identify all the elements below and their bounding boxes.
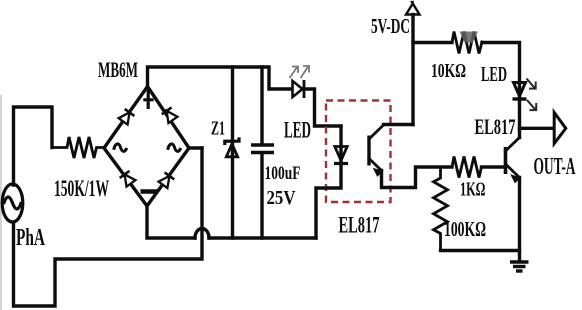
bridge diode bottom-right xyxy=(158,172,174,188)
opto LED wire top xyxy=(339,126,342,163)
bridge diode top-right xyxy=(162,107,178,123)
opto LED wire bottom xyxy=(316,164,341,239)
opto phototransistor xyxy=(369,125,384,176)
bridge minus mark xyxy=(141,189,158,193)
svg-text:LED: LED xyxy=(481,62,507,86)
wire 10K to LED D2 xyxy=(482,43,520,138)
wire AC top to step xyxy=(14,107,53,185)
wire opto collector to 5V node xyxy=(384,123,414,126)
bridge plus mark xyxy=(143,90,153,109)
transistor Q1 xyxy=(506,138,521,183)
LED D2 xyxy=(513,83,527,100)
svg-text:MB6M: MB6M xyxy=(98,57,138,82)
scan artifact left edge xyxy=(0,95,2,310)
svg-text:EL817: EL817 xyxy=(475,114,516,139)
bridge tilde left xyxy=(114,144,127,151)
AC source PhA xyxy=(2,184,23,222)
wire emitter to ground xyxy=(518,178,521,261)
svg-text:25V: 25V xyxy=(267,187,296,209)
wire 1K to base xyxy=(482,165,504,168)
svg-text:OUT-A: OUT-A xyxy=(534,154,576,180)
wire LED D1 to opto input xyxy=(304,89,341,126)
power 5V-DC symbol xyxy=(406,1,420,15)
wire cap drop from top rail xyxy=(260,67,263,143)
bridge tilde right xyxy=(168,144,181,151)
wire Z1 drop from top rail xyxy=(231,67,234,156)
wire opto emitter to 1K node xyxy=(382,167,453,188)
wire 5V to 10K xyxy=(413,41,452,44)
resistor 150K/1W xyxy=(52,137,104,158)
svg-text:10KΩ: 10KΩ xyxy=(431,60,466,82)
optocoupler U1 EL817 dashed box xyxy=(326,101,391,203)
LED D1 xyxy=(293,80,305,98)
wire bottom right rail xyxy=(441,249,520,252)
wire bridge right vertex stub xyxy=(189,146,202,149)
ground xyxy=(510,262,529,271)
wire cap to bottom rail xyxy=(260,154,263,238)
svg-text:Z1: Z1 xyxy=(211,118,225,140)
wire Z1 to bottom rail xyxy=(231,156,234,238)
svg-text:EL817: EL817 xyxy=(339,213,380,238)
svg-text:1KΩ: 1KΩ xyxy=(460,179,486,201)
wire hop over crossing xyxy=(195,229,209,239)
wire 5V rail down xyxy=(411,15,414,125)
bridge diode bottom-left xyxy=(120,171,136,187)
wire DC- rail to opto return xyxy=(209,236,316,239)
svg-text:5V-DC: 5V-DC xyxy=(371,14,410,38)
svg-text:150K/1W: 150K/1W xyxy=(54,176,109,201)
LED D1 emission arrows xyxy=(290,66,310,78)
svg-text:LED: LED xyxy=(284,118,311,143)
resistor 10K xyxy=(452,32,482,54)
svg-text:100KΩ: 100KΩ xyxy=(444,217,486,241)
wire bridge top to top rail xyxy=(148,67,293,89)
wire bridge bottom to DC- rail xyxy=(147,206,195,238)
bridge diode top-left xyxy=(118,109,134,125)
LED D2 emission arrows xyxy=(527,79,537,111)
zener Z1 xyxy=(225,137,239,156)
output port OUT-A flag xyxy=(554,113,566,144)
wire OUT-A xyxy=(520,127,555,130)
resistor 100K vertical xyxy=(434,167,448,251)
capacitor C1 plates xyxy=(251,145,274,153)
opto LED xyxy=(334,147,348,164)
svg-text:PhA: PhA xyxy=(16,225,45,251)
bridge rectifier MB6M diamond xyxy=(104,87,189,207)
wire AC return bottom loop xyxy=(14,148,203,306)
svg-text:100uF: 100uF xyxy=(265,163,301,184)
scan artifact gray blob on 10K xyxy=(460,32,479,44)
resistor 1K xyxy=(452,157,482,178)
